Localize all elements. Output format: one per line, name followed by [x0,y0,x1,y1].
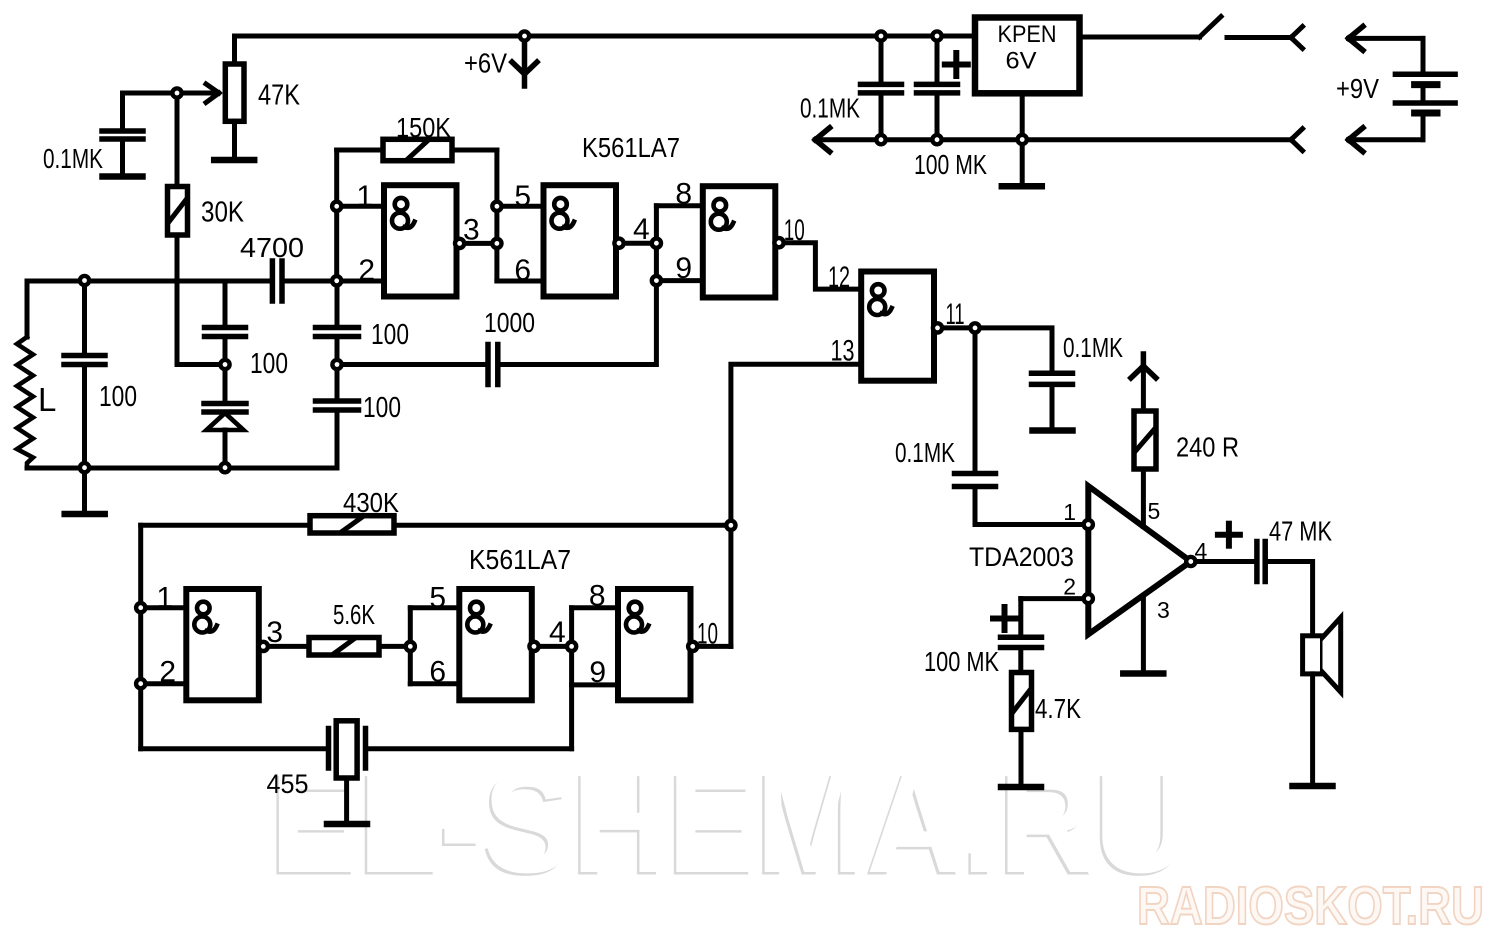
svg-text:RADIOSKOT.RU: RADIOSKOT.RU [1137,876,1484,936]
svg-text:2: 2 [1063,574,1076,600]
svg-text:9: 9 [675,252,692,285]
svg-text:0.1MK: 0.1MK [1063,332,1123,363]
svg-text:+6V: +6V [464,48,508,79]
svg-text:K561LA7: K561LA7 [469,544,571,575]
svg-text:1: 1 [356,180,373,213]
svg-text:6: 6 [429,656,446,689]
svg-text:0.1MK: 0.1MK [800,93,860,124]
svg-text:12: 12 [828,261,850,294]
svg-text:4: 4 [633,213,650,246]
svg-text:2: 2 [159,656,176,689]
svg-text:9: 9 [589,656,606,689]
svg-text:11: 11 [946,298,965,331]
svg-text:100: 100 [363,392,401,424]
svg-text:100: 100 [99,381,137,413]
svg-text:1: 1 [1063,499,1076,525]
svg-text:430K: 430K [343,487,399,518]
svg-text:455: 455 [267,769,309,799]
svg-text:150K: 150K [396,112,451,143]
svg-text:10: 10 [784,214,805,247]
svg-text:5.6K: 5.6K [333,599,375,630]
svg-text:100: 100 [371,319,409,351]
svg-text:240 R: 240 R [1176,432,1239,463]
svg-text:13: 13 [831,335,855,368]
svg-text:47K: 47K [258,80,301,112]
svg-text:1: 1 [156,582,173,615]
svg-text:100: 100 [250,348,288,380]
svg-text:0.1MK: 0.1MK [43,143,103,174]
svg-text:3: 3 [1157,597,1170,623]
svg-text:5: 5 [429,582,446,615]
svg-text:2: 2 [358,254,375,287]
svg-text:30K: 30K [201,197,245,229]
svg-text:4.7K: 4.7K [1035,693,1081,724]
svg-text:6V: 6V [1006,48,1037,75]
svg-text:47 MK: 47 MK [1269,516,1332,547]
svg-text:4700: 4700 [240,232,304,263]
svg-text:8: 8 [589,580,606,613]
svg-text:8: 8 [675,178,692,211]
svg-text:0.1MK: 0.1MK [895,437,955,468]
svg-text:EL-SHEMA.RU: EL-SHEMA.RU [270,744,1190,903]
svg-text:TDA2003: TDA2003 [969,542,1074,572]
svg-text:4: 4 [549,616,566,649]
svg-text:+9V: +9V [1336,73,1379,104]
svg-text:100 MK: 100 MK [924,646,999,677]
svg-text:100 MK: 100 MK [914,149,987,180]
svg-text:L: L [38,381,56,418]
svg-text:1000: 1000 [484,307,535,338]
svg-text:5: 5 [514,180,531,213]
svg-text:10: 10 [697,618,718,651]
svg-text:KPEN: KPEN [998,21,1057,48]
svg-text:6: 6 [514,254,531,287]
svg-text:K561LA7: K561LA7 [582,132,680,163]
svg-text:5: 5 [1148,498,1161,524]
